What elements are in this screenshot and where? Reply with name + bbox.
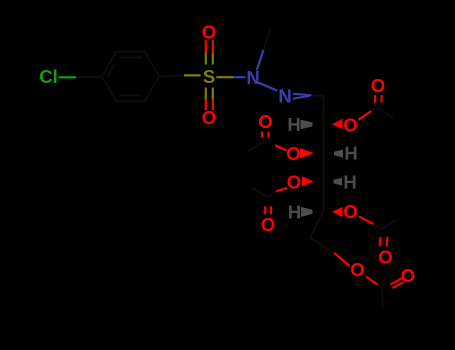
svg-text:H: H — [343, 172, 356, 193]
svg-text:O: O — [378, 247, 392, 268]
wedge C5-O5 (red) — [332, 207, 343, 217]
svg-text:O: O — [343, 115, 357, 136]
wire N2=C1 double bond — [293, 94, 312, 95]
svg-text:H: H — [287, 114, 300, 135]
svg-text:H: H — [344, 143, 357, 164]
wedge C2-O2 (red) — [332, 119, 343, 129]
wire carbon-side bond halves and methyl stubs (near-black) — [76, 30, 396, 309]
wire C=O double bond (acetyl 4) — [380, 237, 381, 246]
wire C=O double bond (acetyl 1) — [374, 95, 376, 102]
wire N1-N2 bond — [259, 83, 278, 91]
wire N1-CH3 bond (N half, blue) — [257, 50, 264, 71]
benzene ring C6H4 (carbon skeleton, near-black) — [102, 52, 159, 102]
svg-text:O: O — [287, 172, 301, 193]
wedge C2-H (gray) — [301, 120, 313, 130]
wire C=O double bond (acetyl 3) — [264, 206, 266, 214]
svg-text:O: O — [202, 22, 216, 43]
wedge C4-O4 (red) — [302, 176, 314, 186]
svg-text:O: O — [261, 214, 275, 235]
wire O4-C(=O) bond — [276, 188, 287, 191]
wedge C4-H (gray) — [334, 178, 343, 186]
wire S-N bond — [216, 76, 233, 78]
wedge C5-H (gray) — [301, 207, 313, 217]
svg-text:O: O — [258, 111, 272, 132]
wire Cl-ring bond (Cl half, green) — [59, 76, 77, 78]
svg-text:O: O — [401, 265, 415, 286]
wire O2-C(=O) bond — [359, 111, 372, 120]
wire C=O double bond (acetyl 2) — [261, 132, 263, 138]
wire S=O top double bond — [206, 40, 213, 65]
svg-text:O: O — [343, 201, 357, 222]
wire ring-S bond (S half, olive) — [184, 74, 201, 76]
wire C6-O6 bond (O half, red) — [334, 253, 350, 266]
svg-text:Cl: Cl — [39, 66, 58, 87]
svg-text:N: N — [278, 86, 291, 107]
wire C=O double bond (acetyl 5) — [391, 278, 402, 284]
svg-text:O: O — [202, 107, 216, 128]
wedge C3-O3 (red) — [300, 148, 314, 158]
svg-text:O: O — [286, 143, 300, 164]
wire O6-C(=O) bond — [366, 277, 378, 285]
svg-text:O: O — [350, 259, 364, 280]
svg-text:H: H — [288, 201, 301, 222]
wire O5-C(=O) bond — [359, 217, 374, 225]
wire S=O bottom double bond — [206, 88, 213, 111]
wire O3-C(=O) bond — [275, 145, 286, 150]
wedge C3-H (gray) — [334, 150, 343, 158]
svg-text:O: O — [371, 75, 385, 96]
svg-text:S: S — [203, 66, 215, 87]
